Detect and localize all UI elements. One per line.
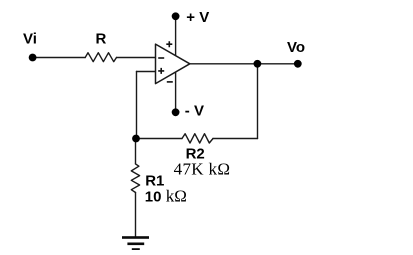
- resistor R2: [182, 134, 213, 143]
- node Vi terminal: [29, 54, 37, 62]
- wire R2 to output corner: [213, 138, 258, 140]
- ground: [122, 236, 149, 251]
- op-amp positive supply marker: [166, 41, 172, 47]
- svg-text:R: R: [96, 31, 107, 48]
- wire op-amp non-inverting input: [137, 71, 156, 73]
- wire junction to R2: [136, 138, 182, 140]
- svg-text:47K kΩ: 47K kΩ: [174, 160, 231, 179]
- op-amp non-inverting input marker: [158, 68, 164, 74]
- resistor R: [85, 53, 116, 62]
- wire R1 to ground: [135, 193, 137, 238]
- wire op-amp output to Vo: [190, 63, 298, 65]
- node feedback junction: [132, 135, 140, 143]
- node +V terminal: [172, 12, 180, 20]
- wire Vi to R: [33, 57, 86, 59]
- resistor R1: [131, 164, 139, 193]
- svg-text:Vi: Vi: [23, 31, 37, 48]
- svg-text:+ V: + V: [186, 9, 209, 26]
- svg-text:Vo: Vo: [287, 39, 305, 56]
- node -V terminal: [172, 108, 180, 116]
- svg-text:10 kΩ: 10 kΩ: [145, 186, 187, 205]
- wire junction to R1: [135, 139, 137, 164]
- svg-text:- V: - V: [185, 103, 204, 120]
- wire R to op-amp inverting input: [117, 57, 156, 59]
- wire feedback vertical to junction: [136, 72, 138, 139]
- wire feedback vertical to output: [257, 64, 259, 139]
- wire +V power rail through op-amp: [175, 16, 177, 112]
- op-amp negative supply marker: [167, 81, 173, 83]
- node Vo terminal: [294, 60, 302, 68]
- op-amp inverting input marker: [158, 57, 164, 59]
- op-amp U1: [156, 44, 190, 84]
- node output junction: [254, 60, 262, 68]
